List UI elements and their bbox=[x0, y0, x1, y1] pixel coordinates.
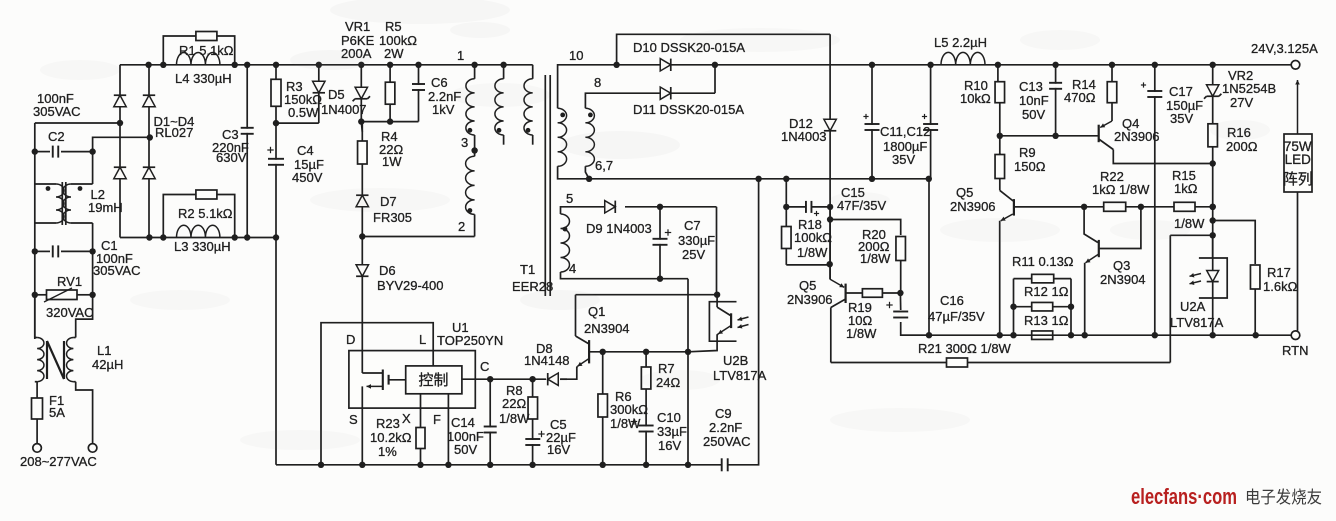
svg-text:470Ω: 470Ω bbox=[1064, 90, 1096, 105]
svg-text:D6: D6 bbox=[379, 263, 396, 278]
svg-text:R23: R23 bbox=[376, 416, 400, 431]
svg-text:控制: 控制 bbox=[418, 372, 448, 389]
svg-text:1N5254B: 1N5254B bbox=[1222, 81, 1276, 96]
svg-text:5A: 5A bbox=[49, 405, 65, 420]
svg-text:L4 330µH: L4 330µH bbox=[175, 71, 232, 86]
svg-text:47µF/35V: 47µF/35V bbox=[928, 309, 985, 324]
svg-text:1W: 1W bbox=[382, 154, 402, 169]
svg-text:1kV: 1kV bbox=[432, 102, 455, 117]
svg-text:16V: 16V bbox=[658, 438, 681, 453]
svg-text:TOP250YN: TOP250YN bbox=[437, 333, 503, 348]
svg-text:elecfans·com: elecfans·com bbox=[1131, 484, 1237, 509]
svg-text:22Ω: 22Ω bbox=[502, 396, 526, 411]
svg-text:C10: C10 bbox=[657, 410, 681, 425]
svg-text:1kΩ 1/8W: 1kΩ 1/8W bbox=[1092, 182, 1150, 197]
svg-text:FR305: FR305 bbox=[373, 210, 412, 225]
svg-text:L3 330µH: L3 330µH bbox=[174, 239, 231, 254]
svg-text:1.6kΩ: 1.6kΩ bbox=[1263, 279, 1298, 294]
svg-text:R21 300Ω 1/8W: R21 300Ω 1/8W bbox=[918, 341, 1012, 356]
svg-text:27V: 27V bbox=[1230, 95, 1253, 110]
svg-text:S: S bbox=[349, 412, 358, 427]
svg-text:F: F bbox=[433, 412, 441, 427]
svg-text:X: X bbox=[402, 411, 411, 426]
svg-text:U2B: U2B bbox=[723, 353, 748, 368]
svg-text:C16: C16 bbox=[940, 293, 964, 308]
svg-text:RL027: RL027 bbox=[155, 125, 193, 140]
svg-text:Q5: Q5 bbox=[956, 185, 973, 200]
svg-text:T1: T1 bbox=[520, 262, 535, 277]
svg-text:250VAC: 250VAC bbox=[703, 434, 750, 449]
svg-text:305VAC: 305VAC bbox=[33, 104, 80, 119]
svg-text:L5 2.2µH: L5 2.2µH bbox=[934, 35, 987, 50]
svg-text:150Ω: 150Ω bbox=[1014, 159, 1046, 174]
svg-text:50V: 50V bbox=[454, 442, 477, 457]
svg-text:10kΩ: 10kΩ bbox=[960, 91, 991, 106]
svg-text:300kΩ: 300kΩ bbox=[610, 402, 648, 417]
svg-text:R11 0.13Ω: R11 0.13Ω bbox=[1012, 254, 1074, 269]
svg-text:19mH: 19mH bbox=[88, 200, 123, 215]
svg-text:1N4007: 1N4007 bbox=[321, 102, 367, 117]
svg-text:1kΩ: 1kΩ bbox=[1174, 181, 1198, 196]
svg-text:R1 5.1kΩ: R1 5.1kΩ bbox=[179, 43, 234, 58]
svg-text:C4: C4 bbox=[297, 143, 314, 158]
svg-text:10nF: 10nF bbox=[1019, 93, 1049, 108]
svg-text:D5: D5 bbox=[328, 87, 345, 102]
svg-text:10: 10 bbox=[569, 48, 583, 63]
svg-text:320VAC: 320VAC bbox=[46, 305, 93, 320]
svg-text:C11,C12: C11,C12 bbox=[880, 124, 930, 139]
svg-text:630V: 630V bbox=[216, 150, 247, 165]
svg-text:2N3906: 2N3906 bbox=[787, 292, 833, 307]
svg-text:35V: 35V bbox=[1170, 111, 1193, 126]
svg-text:330µF: 330µF bbox=[678, 233, 715, 248]
svg-text:Q3: Q3 bbox=[1113, 258, 1130, 273]
svg-text:LTV817A: LTV817A bbox=[1170, 315, 1224, 330]
svg-text:2N3906: 2N3906 bbox=[950, 199, 996, 214]
svg-text:RV1: RV1 bbox=[57, 274, 82, 289]
svg-text:4: 4 bbox=[569, 261, 576, 276]
svg-text:10.2kΩ: 10.2kΩ bbox=[370, 430, 412, 445]
svg-text:C6: C6 bbox=[431, 75, 448, 90]
svg-text:LED: LED bbox=[1285, 152, 1312, 167]
svg-text:208~277VAC: 208~277VAC bbox=[20, 454, 97, 469]
svg-text:2N3904: 2N3904 bbox=[584, 321, 630, 336]
svg-text:Q5: Q5 bbox=[799, 278, 816, 293]
svg-text:6,7: 6,7 bbox=[595, 158, 613, 173]
svg-text:200Ω: 200Ω bbox=[1226, 139, 1258, 154]
svg-text:阵列: 阵列 bbox=[1283, 171, 1313, 188]
svg-text:450V: 450V bbox=[292, 170, 323, 185]
svg-text:5: 5 bbox=[566, 191, 573, 206]
svg-text:L1: L1 bbox=[97, 343, 111, 358]
svg-text:1/8W: 1/8W bbox=[797, 245, 828, 260]
svg-text:C7: C7 bbox=[684, 218, 701, 233]
svg-text:C: C bbox=[480, 359, 489, 374]
svg-text:R17: R17 bbox=[1267, 265, 1291, 280]
svg-text:C13: C13 bbox=[1019, 79, 1043, 94]
svg-text:24V,3.125A: 24V,3.125A bbox=[1251, 41, 1318, 56]
svg-text:U2A: U2A bbox=[1180, 299, 1206, 314]
svg-text:1/8W: 1/8W bbox=[860, 251, 891, 266]
svg-text:35V: 35V bbox=[892, 152, 915, 167]
svg-text:C17: C17 bbox=[1169, 84, 1193, 99]
svg-text:2W: 2W bbox=[384, 46, 404, 61]
svg-text:42µH: 42µH bbox=[92, 357, 123, 372]
svg-text:D9 1N4003: D9 1N4003 bbox=[586, 221, 652, 236]
svg-text:C14: C14 bbox=[451, 415, 475, 430]
svg-text:电子发烧友: 电子发烧友 bbox=[1245, 488, 1322, 507]
svg-text:R2 5.1kΩ: R2 5.1kΩ bbox=[178, 206, 233, 221]
svg-text:16V: 16V bbox=[547, 442, 570, 457]
svg-text:C2: C2 bbox=[48, 129, 65, 144]
svg-text:D11 DSSK20-015A: D11 DSSK20-015A bbox=[633, 102, 744, 117]
svg-text:2: 2 bbox=[458, 219, 465, 234]
svg-text:BYV29-400: BYV29-400 bbox=[377, 278, 444, 293]
svg-text:L: L bbox=[419, 332, 426, 347]
svg-text:2N3904: 2N3904 bbox=[1100, 272, 1146, 287]
svg-text:R13 1Ω: R13 1Ω bbox=[1024, 313, 1069, 328]
svg-text:D: D bbox=[346, 332, 355, 347]
svg-text:305VAC: 305VAC bbox=[93, 263, 140, 278]
svg-text:100kΩ: 100kΩ bbox=[794, 230, 832, 245]
svg-text:1: 1 bbox=[457, 48, 464, 63]
svg-text:1/8W: 1/8W bbox=[499, 411, 530, 426]
svg-text:0.5W: 0.5W bbox=[288, 105, 319, 120]
svg-text:1N4148: 1N4148 bbox=[524, 353, 570, 368]
svg-text:R9: R9 bbox=[1019, 145, 1036, 160]
svg-text:C9: C9 bbox=[715, 406, 732, 421]
svg-text:R12 1Ω: R12 1Ω bbox=[1024, 284, 1069, 299]
svg-text:RTN: RTN bbox=[1282, 343, 1308, 358]
svg-text:3: 3 bbox=[461, 135, 468, 150]
svg-text:1/8W: 1/8W bbox=[610, 416, 641, 431]
svg-text:1%: 1% bbox=[378, 444, 397, 459]
svg-text:50V: 50V bbox=[1022, 107, 1045, 122]
svg-text:25V: 25V bbox=[682, 247, 705, 262]
svg-text:2N3906: 2N3906 bbox=[1114, 129, 1160, 144]
svg-text:1N4003: 1N4003 bbox=[781, 129, 827, 144]
svg-text:2.2nF: 2.2nF bbox=[709, 420, 742, 435]
svg-text:8: 8 bbox=[594, 75, 601, 90]
svg-text:33µF: 33µF bbox=[657, 424, 687, 439]
svg-text:1/8W: 1/8W bbox=[846, 326, 877, 341]
